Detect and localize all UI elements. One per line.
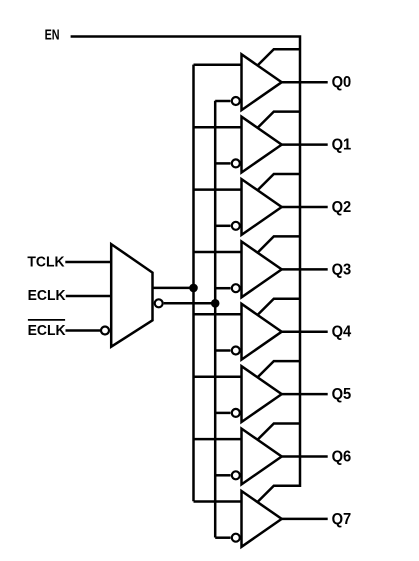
svg-text:Q3: Q3 [332,261,352,279]
svg-text:Q6: Q6 [332,448,352,466]
svg-text:Q0: Q0 [332,74,352,92]
svg-text:Q5: Q5 [332,386,352,404]
svg-text:Q7: Q7 [332,510,352,528]
svg-text:Q4: Q4 [332,323,352,341]
svg-text:Q2: Q2 [332,198,352,216]
svg-text:EN: EN [45,26,60,43]
svg-text:Q1: Q1 [332,136,352,154]
svg-text:TCLK: TCLK [27,254,65,271]
svg-text:ECLK: ECLK [28,322,66,339]
svg-text:ECLK: ECLK [28,288,66,305]
